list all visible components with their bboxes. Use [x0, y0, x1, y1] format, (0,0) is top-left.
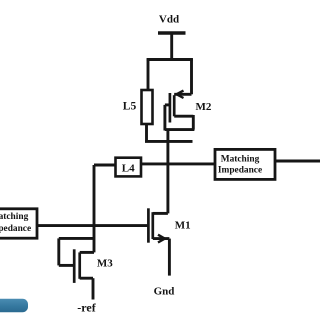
- svg-text:-ref: -ref: [77, 301, 96, 315]
- svg-text:Impedance: Impedance: [0, 224, 31, 234]
- svg-text:Matching: Matching: [221, 155, 260, 165]
- svg-text:Gnd: Gnd: [154, 286, 175, 298]
- svg-text:M1: M1: [175, 220, 191, 232]
- svg-text:Matching: Matching: [0, 212, 29, 222]
- svg-text:M3: M3: [97, 258, 113, 270]
- svg-text:Impedance: Impedance: [218, 166, 262, 176]
- svg-text:L4: L4: [122, 162, 135, 174]
- svg-text:L5: L5: [123, 101, 137, 113]
- svg-text:Vdd: Vdd: [159, 14, 179, 26]
- svg-text:M2: M2: [196, 101, 212, 113]
